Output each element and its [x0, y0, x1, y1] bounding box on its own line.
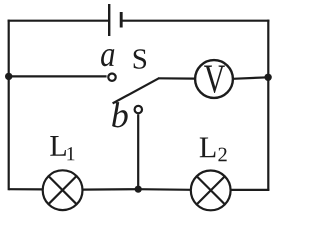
voltmeter V1 letter V: [204, 66, 225, 93]
lamp L1 bulb circle: [43, 170, 83, 210]
switch S contact a: [108, 74, 115, 81]
lamp L2: [191, 171, 231, 211]
switch S blade: [113, 78, 159, 103]
label L2: [200, 138, 227, 162]
label a: [101, 49, 114, 66]
battery B1 positive (long) plate: [108, 4, 110, 36]
lamp L1: [43, 170, 83, 210]
node junction right: [264, 74, 271, 81]
wire left side: [8, 20, 10, 191]
label b: [112, 102, 128, 127]
wire middle to contact a: [9, 75, 107, 77]
wire right side: [267, 20, 269, 191]
wire bottom junction to lamp L2: [138, 188, 191, 191]
label S: [134, 49, 146, 68]
voltmeter V1 body circle: [195, 60, 233, 98]
node junction bottom: [135, 186, 142, 193]
wire lamp L2 to bottom right corner: [230, 189, 269, 191]
wire top left to battery: [8, 20, 108, 22]
node junction left: [5, 73, 12, 80]
wire lamp L1 to bottom junction: [82, 188, 138, 191]
lamp L2 bulb circle: [191, 171, 231, 211]
lamp L2 filament cross: [197, 177, 224, 204]
voltmeter V1: [195, 60, 233, 98]
battery B1 negative (short) plate: [120, 12, 123, 28]
wire switch to voltmeter: [158, 77, 195, 79]
lamp L1 filament cross: [49, 176, 76, 203]
label L1: [50, 136, 74, 160]
wire voltmeter to right node: [233, 77, 268, 79]
switch S contact b: [135, 106, 142, 113]
wire contact b down to bottom junction: [137, 114, 139, 189]
wire bottom left to lamp L1: [9, 188, 44, 190]
wire top right from battery: [123, 20, 270, 22]
